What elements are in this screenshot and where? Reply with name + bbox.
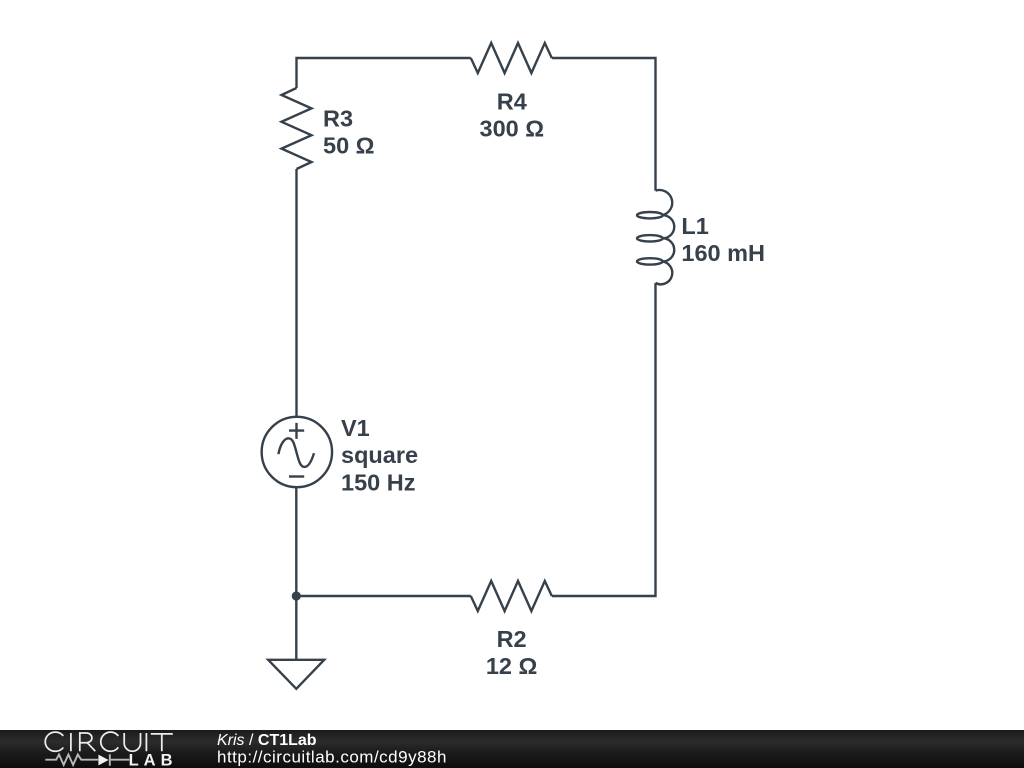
wire L1 bottom to bottom-right corner to R2 right [552, 283, 656, 596]
svg-text:R3: R3 [323, 106, 353, 132]
C [45, 732, 63, 751]
diode triangle [98, 755, 108, 766]
CircuitLab logo: CIRCUIT [45, 732, 173, 751]
ground symbol [268, 660, 324, 689]
svg-text:http://circuitlab.com/cd9y88h: http://circuitlab.com/cd9y88h [217, 747, 447, 766]
svg-text:square: square [341, 442, 418, 468]
resistor R2 [471, 581, 552, 611]
wire R3 bottom to V1 top [295, 169, 297, 418]
resistor R3 [282, 88, 312, 169]
svg-text:R4: R4 [497, 89, 527, 115]
node dot [292, 591, 301, 600]
svg-text:LAB: LAB [129, 752, 178, 768]
wire R4 right to top-right corner down to L1 top [552, 58, 656, 191]
T [151, 734, 173, 751]
svg-text:Kris / CT1Lab: Kris / CT1Lab [217, 732, 317, 749]
wire node to ground [295, 596, 297, 660]
logo mini-schematic: wire + resistor + diode [45, 754, 129, 765]
wire V1 bottom to node [295, 487, 297, 596]
wire R2 left to node [296, 595, 471, 597]
V1 minus sign [289, 475, 304, 477]
V1 plus sign [289, 423, 304, 439]
svg-text:R2: R2 [497, 626, 527, 652]
R [80, 733, 96, 751]
svg-text:50 Ω: 50 Ω [323, 133, 375, 159]
inductor L1 [637, 190, 674, 284]
I [70, 733, 72, 751]
voltage source V1 circle [262, 417, 332, 487]
svg-text:V1: V1 [341, 415, 370, 441]
svg-text:150 Hz: 150 Hz [341, 470, 415, 496]
svg-text:12 Ω: 12 Ω [486, 653, 538, 679]
svg-text:L1: L1 [681, 213, 708, 239]
C [101, 732, 119, 751]
V1 sine glyph [278, 438, 314, 467]
svg-text:300 Ω: 300 Ω [480, 116, 545, 142]
footer bar [0, 730, 1024, 768]
svg-text:160 mH: 160 mH [681, 240, 765, 266]
I [145, 733, 147, 751]
U [124, 733, 140, 751]
wire top-left corner to R4 left [297, 58, 471, 88]
resistor R4 [471, 43, 552, 73]
